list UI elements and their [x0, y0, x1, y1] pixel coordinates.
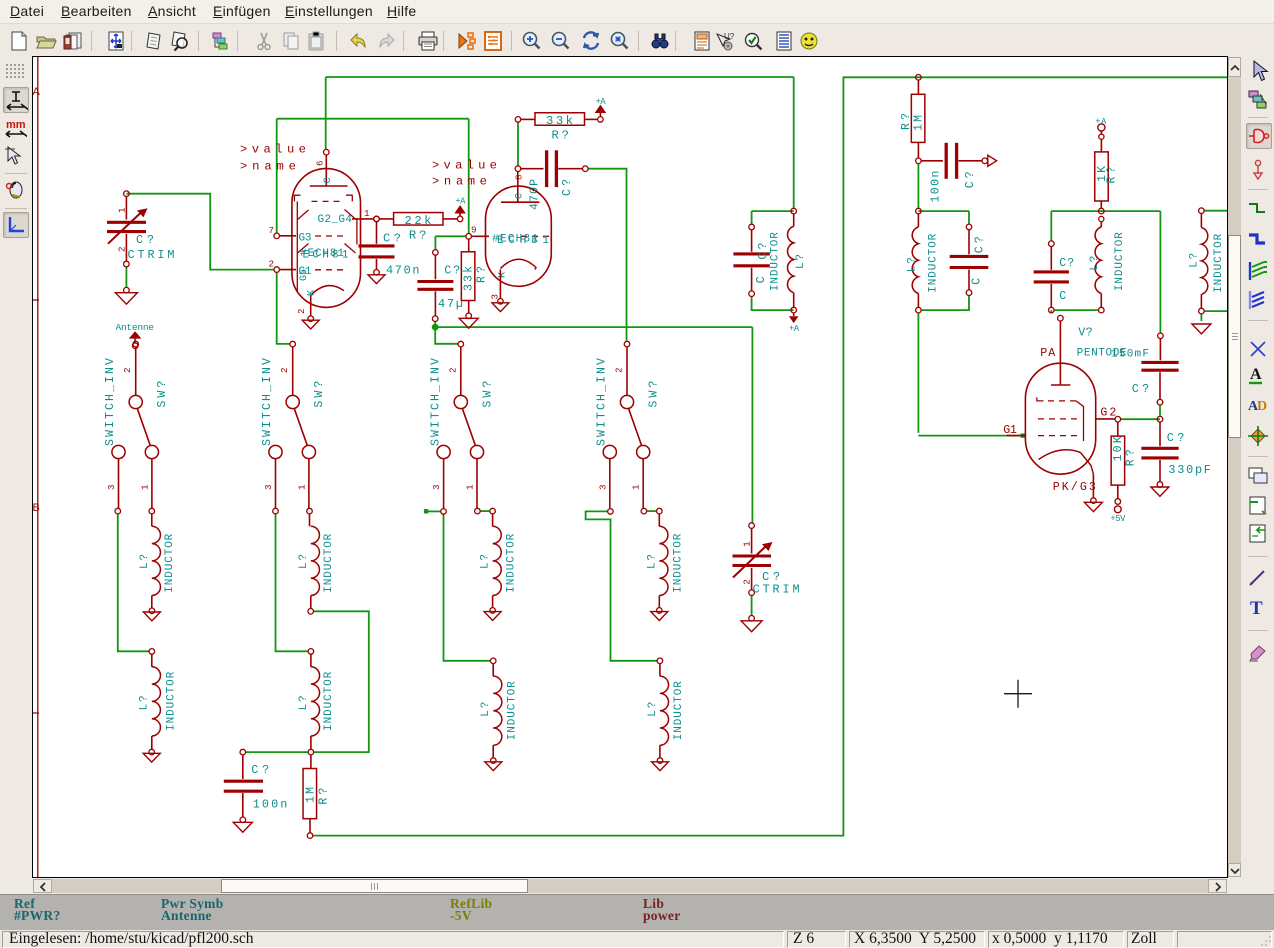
svg-text:C?: C?: [444, 264, 460, 278]
svg-text:L?: L?: [907, 257, 919, 272]
svg-text:V?: V?: [1078, 326, 1093, 340]
svg-text:2: 2: [447, 367, 458, 373]
svg-text:+5V: +5V: [1110, 514, 1126, 524]
svg-text:C?: C?: [1059, 257, 1074, 270]
svg-text:C: C: [755, 276, 768, 283]
svg-text:R?: R?: [1125, 449, 1138, 466]
svg-text:L?: L?: [298, 695, 310, 710]
text field >value tube V2: [432, 158, 497, 172]
junction node mid rail: [432, 324, 439, 331]
inductor L? under SW4: [646, 514, 684, 608]
svg-text:22k: 22k: [405, 214, 432, 228]
svg-text:SWITCH_INV: SWITCH_INV: [429, 358, 442, 446]
pentode V? tube: [1003, 315, 1149, 498]
wire CTRIM2 bottom to ground: [751, 596, 753, 617]
text field >value tube V1: [240, 142, 306, 156]
svg-text:SW?: SW?: [648, 381, 661, 408]
svg-text:+A: +A: [455, 197, 466, 207]
wire SW4 pin3 jog down: [586, 511, 658, 660]
wire LC pair 2 bottom link: [918, 296, 969, 433]
svg-text:L?: L?: [139, 554, 151, 569]
svg-text:1: 1: [139, 484, 150, 490]
wire CTRIM to tube V1 pin 2: [126, 194, 274, 270]
ground below 100n: [233, 822, 252, 832]
wire SW3 pin1 to inductor: [480, 510, 490, 512]
second row inductor L? below SW3: [480, 658, 519, 758]
switch SW?3 SWITCH_INV: [429, 341, 495, 514]
svg-text:2: 2: [122, 367, 133, 373]
wire LC pair 2 top link: [918, 211, 969, 224]
ground below second inductor SW3: [485, 758, 502, 771]
svg-text:SW?: SW?: [313, 381, 326, 408]
tube V1 ECH81 hexode: [269, 149, 380, 316]
wire SW2 pin3 down: [276, 514, 309, 651]
svg-text:INDUCTOR: INDUCTOR: [927, 233, 939, 292]
svg-text:9: 9: [471, 225, 477, 236]
svg-text:C: C: [323, 177, 334, 183]
svg-text:G2: G2: [1100, 407, 1116, 420]
svg-text:A: A: [33, 86, 41, 98]
svg-text:INDUCTOR: INDUCTOR: [1213, 233, 1225, 292]
resistor R? 10K: [1111, 422, 1137, 505]
tube V2 ECH81 triode: [466, 172, 551, 300]
svg-text:C: C: [1059, 290, 1066, 303]
svg-text:A: A: [1250, 366, 1262, 383]
wire LC pair 3 bottom link: [1051, 310, 1098, 313]
svg-text:R?: R?: [409, 229, 427, 243]
svg-text:7: 7: [269, 225, 275, 236]
ground below CTRIM 2: [741, 616, 762, 632]
LC pair 2 inductor L?: [907, 208, 940, 313]
svg-text:1: 1: [631, 484, 642, 490]
svg-text:150mF: 150mF: [1111, 349, 1149, 361]
svg-text:L?: L?: [480, 702, 492, 717]
svg-text:C: C: [515, 193, 526, 199]
svg-text:C?: C?: [561, 179, 574, 196]
svg-text:G3: G3: [299, 233, 312, 245]
svg-text:L?: L?: [480, 554, 492, 569]
power symbol +A at 33k: [596, 97, 607, 117]
svg-text:C?: C?: [1167, 431, 1185, 445]
capacitor C? 100n bottom: [224, 749, 287, 822]
svg-text:2: 2: [614, 367, 625, 373]
svg-text:L?: L?: [1089, 256, 1101, 271]
wire CTRIM bottom to ground: [125, 267, 127, 288]
wire pin7 rail: [277, 119, 469, 233]
svg-text:SWITCH_INV: SWITCH_INV: [104, 358, 117, 446]
svg-text:INDUCTOR: INDUCTOR: [673, 681, 685, 740]
wire mid rail to SW3 top: [435, 327, 458, 344]
capacitor C? 47u: [417, 250, 463, 322]
wire to pentode G1: [918, 433, 1025, 437]
svg-text:>name: >name: [432, 174, 487, 188]
wire SW1 pin3 down: [118, 514, 149, 651]
ground below 33k cathode: [459, 318, 478, 328]
ground below second inductor SW4: [652, 758, 669, 771]
capacitor C? 330pF: [1141, 416, 1211, 487]
switch SW?2 SWITCH_INV: [261, 341, 326, 514]
svg-text:100n: 100n: [930, 171, 943, 203]
ground below pentode cathode: [1084, 498, 1102, 512]
svg-text:SWITCH_INV: SWITCH_INV: [596, 358, 609, 446]
svg-text:INDUCTOR: INDUCTOR: [323, 533, 335, 592]
svg-text:2: 2: [117, 246, 128, 252]
capacitor C? 470p coupling: [515, 150, 588, 210]
svg-text:INDUCTOR: INDUCTOR: [164, 533, 176, 592]
inductor L? 4 right edge: [1188, 208, 1225, 314]
wire top rail left section: [326, 76, 794, 78]
resistor R? 1M top: [900, 75, 926, 164]
LC pair 1 inductor L?: [770, 208, 808, 313]
svg-text:C: C: [971, 278, 984, 285]
svg-text:>value: >value: [240, 142, 306, 156]
svg-text:2: 2: [279, 367, 290, 373]
svg-text:1M: 1M: [913, 115, 926, 131]
ground below CTRIM: [115, 287, 137, 304]
wire 47u bottom to junction: [434, 322, 436, 328]
inductor L? under SW3: [480, 514, 518, 608]
wire 1M top junction rail: [917, 164, 919, 209]
wire 100n link to junction: [246, 751, 309, 753]
svg-text:CTRIM: CTRIM: [128, 248, 175, 262]
resistor R? 22k: [374, 213, 463, 243]
svg-text:3: 3: [106, 484, 117, 490]
svg-text:1: 1: [465, 484, 476, 490]
svg-text:>value: >value: [432, 158, 497, 172]
LC pair 3 capacitor C?: [1034, 241, 1075, 313]
wire pin9 to 47u cap: [435, 236, 466, 249]
svg-text:PA: PA: [1040, 347, 1055, 360]
svg-text:R?: R?: [476, 266, 489, 283]
svg-text:B: B: [33, 502, 40, 514]
wire SW3 pin3 stub with end square: [424, 509, 441, 513]
resistor R? 1K: [1095, 139, 1119, 221]
wire top rail to tube V1 pin 6: [325, 77, 327, 150]
svg-text:INDUCTOR: INDUCTOR: [770, 232, 782, 291]
cursor crosshair: [1004, 680, 1032, 708]
svg-text:1: 1: [117, 207, 128, 213]
svg-text:47µ: 47µ: [438, 297, 463, 311]
wire mid rail down to CTRIM2: [751, 327, 753, 523]
svg-text:R?: R?: [318, 788, 331, 805]
svg-text:G5: G5: [299, 269, 310, 281]
resistor R? 1M bottom: [303, 755, 331, 838]
resistor R? 33k top: [515, 113, 603, 143]
ground below tube V1: [302, 316, 319, 329]
second row inductor L? below SW2: [298, 649, 335, 755]
svg-text:2: 2: [269, 259, 275, 270]
power symbol +A down at LC pair 1: [789, 313, 800, 334]
svg-text:1: 1: [742, 541, 753, 547]
svg-text:C?: C?: [383, 232, 401, 246]
svg-text:mm: mm: [6, 119, 26, 131]
variable capacitor C? CTRIM: [107, 191, 175, 267]
svg-text:L?: L?: [795, 254, 807, 269]
wire LC pair 3 top link: [1051, 211, 1160, 333]
svg-text:3: 3: [597, 484, 608, 490]
wire SW2 inductor to second inductor: [314, 611, 369, 752]
wire LC pair 1 bottom link: [752, 297, 794, 311]
capacitor C? 470n: [359, 222, 420, 278]
inductor L? under SW1: [139, 514, 176, 608]
variable capacitor C? CTRIM 2: [733, 523, 800, 597]
svg-text:33k: 33k: [546, 114, 573, 128]
svg-text:1M: 1M: [305, 787, 318, 803]
ground below SW4 inductor: [651, 608, 668, 621]
second row inductor L? below SW1: [139, 649, 178, 750]
svg-text:3: 3: [431, 484, 442, 490]
power symbol +A at 22k: [455, 197, 466, 217]
svg-text:+A: +A: [596, 97, 607, 107]
svg-text:CTRIM: CTRIM: [753, 583, 800, 597]
wire inductor 4 bottom to edge and ground: [1201, 311, 1227, 321]
ground below 470n: [368, 275, 385, 284]
svg-text:INDUCTOR: INDUCTOR: [323, 671, 335, 730]
svg-text:U?: U?: [724, 32, 735, 41]
switch SW?4 SWITCH_INV: [596, 341, 663, 514]
svg-text:R?: R?: [552, 129, 570, 143]
text field >name tube V1: [240, 159, 296, 173]
wire big loop bottom and left: [313, 77, 1227, 835]
text field >name tube V2: [432, 174, 487, 188]
svg-text:SW?: SW?: [481, 381, 494, 408]
wire top rail down right section: [793, 77, 795, 208]
wire SW3 pin3 down: [444, 514, 491, 661]
svg-text:3: 3: [263, 484, 274, 490]
power symbol +5V below 10K: [1110, 506, 1126, 524]
svg-text:INDUCTOR: INDUCTOR: [166, 671, 178, 730]
svg-text:L?: L?: [646, 554, 658, 569]
svg-text:1: 1: [296, 484, 307, 490]
LC pair 3 inductor L?: [1089, 222, 1126, 313]
svg-text:R?: R?: [1106, 166, 1119, 183]
wire inductor 4 top to edge: [1204, 210, 1227, 212]
ground below SW1 inductor: [143, 608, 160, 621]
svg-text:Antenne: Antenne: [116, 322, 155, 333]
svg-text:SW?: SW?: [156, 381, 169, 408]
second row inductor L? below SW4: [647, 658, 685, 758]
resistor R? 33k cathode: [461, 239, 488, 319]
ground below SW3 inductor: [484, 608, 501, 621]
svg-text:C?: C?: [136, 233, 154, 247]
capacitor C? 100n top: [921, 143, 987, 203]
svg-text:K: K: [498, 271, 509, 278]
LC pair 1 capacitor C?: [733, 224, 770, 296]
wire 33k to coupling cap: [517, 122, 519, 166]
svg-text:C?: C?: [974, 236, 987, 253]
svg-text:INDUCTOR: INDUCTOR: [506, 533, 518, 592]
svg-text:C?: C?: [1132, 382, 1150, 396]
svg-text:C?: C?: [964, 171, 977, 188]
wire SW4 pin1 to inductor: [647, 510, 657, 512]
sheet frame left border: [33, 57, 41, 877]
svg-text:2: 2: [742, 579, 753, 585]
svg-text:100n: 100n: [253, 798, 287, 812]
svg-text:C?: C?: [757, 242, 770, 259]
svg-text:L?: L?: [1188, 253, 1200, 268]
wire coupling cap to SW4 top: [588, 169, 626, 341]
svg-text:C?: C?: [251, 763, 269, 777]
svg-text:+A: +A: [789, 324, 800, 334]
power symbol +A at 1K: [1095, 117, 1107, 139]
switch SW?1 SWITCH_INV: [104, 341, 169, 514]
ground below second inductor SW1: [143, 749, 160, 762]
LC pair 2 capacitor C?: [950, 224, 989, 295]
svg-text:2: 2: [297, 309, 307, 314]
svg-text:SWITCH_INV: SWITCH_INV: [261, 358, 274, 446]
svg-text:L?: L?: [139, 695, 151, 710]
svg-text:470n: 470n: [386, 264, 420, 278]
svg-text:33k: 33k: [463, 266, 476, 291]
wire to tube V2 pin 9: [468, 119, 470, 234]
svg-text:T: T: [1250, 598, 1263, 619]
svg-text:10K: 10K: [1112, 436, 1125, 461]
ground below inductor 4: [1192, 324, 1211, 334]
svg-text:G2_G4: G2_G4: [318, 214, 353, 226]
svg-text:INDUCTOR: INDUCTOR: [673, 533, 685, 592]
svg-text:L?: L?: [298, 554, 310, 569]
capacitor C? 150mF: [1132, 333, 1179, 405]
svg-text:>name: >name: [240, 159, 296, 173]
wire pentode G2 to caps: [1121, 405, 1160, 419]
svg-text:D: D: [1257, 399, 1267, 414]
ground below tube V2: [492, 299, 509, 312]
svg-text:330pF: 330pF: [1168, 463, 1211, 477]
wire LC pair 1 top link: [752, 211, 794, 224]
svg-text:6: 6: [315, 160, 326, 166]
svg-text:1: 1: [364, 208, 370, 219]
svg-text:K: K: [307, 289, 318, 296]
svg-text:L?: L?: [647, 702, 659, 717]
inductor L? under SW2: [298, 514, 335, 614]
power arrow right at 100n: [988, 155, 997, 166]
ground below 330pF: [1151, 487, 1169, 496]
svg-text:8: 8: [514, 174, 525, 180]
svg-text:INDUCTOR: INDUCTOR: [1114, 232, 1126, 291]
svg-text:PK/G3: PK/G3: [1053, 481, 1096, 494]
svg-text:INDUCTOR: INDUCTOR: [507, 681, 519, 740]
wire mid rail: [435, 326, 752, 328]
power symbol Antenne: [116, 322, 155, 349]
svg-text:G1: G1: [1003, 424, 1017, 437]
wire tube V1 pin2 to SW2 top: [277, 272, 290, 344]
